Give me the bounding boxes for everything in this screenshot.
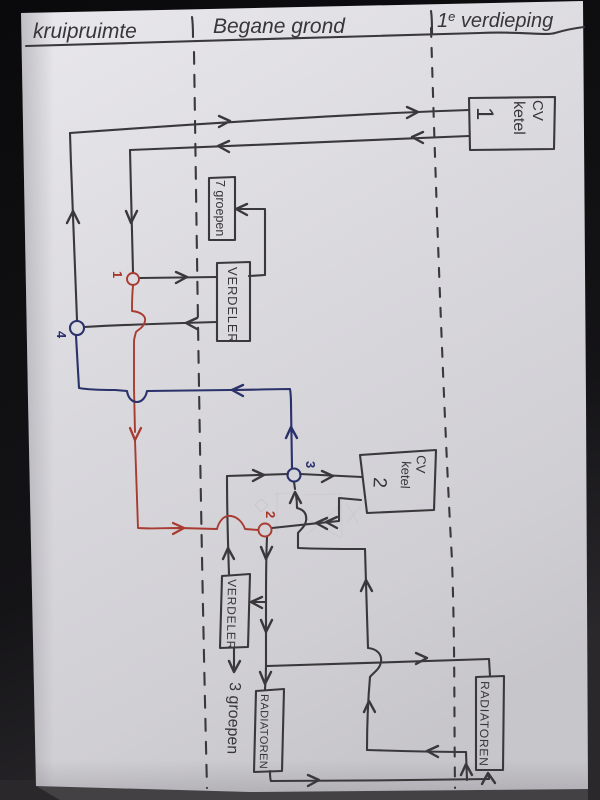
wire: node 3 down with hop and to right vertical [294,482,295,489]
blue wire node4 to node3 [76,336,292,468]
svg-text:4: 4 [54,331,69,339]
svg-text:ketel: ketel [510,101,527,135]
svg-text:ketel: ketel [398,461,414,489]
wire: node 4 to VERDELER [84,322,217,327]
svg-text:VERDELER: VERDELER [224,579,239,650]
box CV ketel 1 [469,97,555,150]
svg-text:CV: CV [413,455,429,474]
box RADIATOREN 2 [476,676,504,770]
svg-text:RADIATOREN: RADIATOREN [477,681,492,767]
box CV ketel 2 [360,450,436,513]
wire: VERDELER to 7 groepen [237,209,265,276]
box RADIATOREN 1 [254,689,284,772]
wire: supply to CV ketel 1 (top) [70,110,469,133]
faint erased pencil marks [255,492,361,537]
wire: long right vertical [365,549,368,648]
wire: return from CV ketel 1 [130,136,469,150]
svg-text:CV: CV [529,100,546,121]
node 1 [127,273,139,285]
wire: node 3 to CV ketel 2 [300,474,362,477]
header tick 2 [431,11,432,33]
box 7 groepen [209,177,235,240]
wire: node 2 down to verdeler 2 and radiatoren 1 [265,537,267,689]
svg-text:2: 2 [368,477,390,489]
wire: node 2 to CV ketel 2 [272,498,361,528]
svg-text:kruipruimte: kruipruimte [33,20,137,43]
svg-text:1: 1 [471,107,498,120]
svg-text:1e verdieping: 1e verdieping [437,9,553,32]
box VERDELER 2 [220,574,250,648]
wire: stub into VERDELER 2 right [251,601,266,603]
svg-text:VERDELER: VERDELER [225,267,240,343]
header tick 1 [192,17,193,37]
svg-text:1: 1 [110,271,125,278]
blue circuit [70,321,301,482]
red circuit [127,273,272,537]
dashed zone line 1 [194,52,207,788]
wire: bottom of right vertical to radiator 2 branch [367,750,466,752]
wire: junction down to VERDELER 2 [227,476,229,574]
node 4 [70,321,84,335]
node 3 [288,469,301,482]
box VERDELER (begane grond) [217,262,250,341]
wire: bottom return line [270,771,271,781]
svg-text:Begane grond: Begane grond [213,15,346,38]
node 2 [259,524,272,537]
wire: middle horizontal to radiator 2 [267,659,489,666]
dashed zone line 2 [431,28,455,788]
svg-text:2: 2 [263,511,278,518]
wire: second vertical to node 1 [130,150,133,272]
wire: node 1 to VERDELER [140,277,217,278]
wire: left vertical to node 4 [70,133,77,320]
red wire node1 to node2 [132,286,145,432]
header underline [26,27,584,46]
svg-text:RADIATOREN: RADIATOREN [257,694,270,769]
svg-text:7 groepen: 7 groepen [213,180,227,236]
wire: junction to node 3 [227,474,288,476]
arrow to 3 groepen [233,648,235,668]
svg-text:3 groepen: 3 groepen [223,682,243,755]
svg-text:3: 3 [303,461,318,468]
